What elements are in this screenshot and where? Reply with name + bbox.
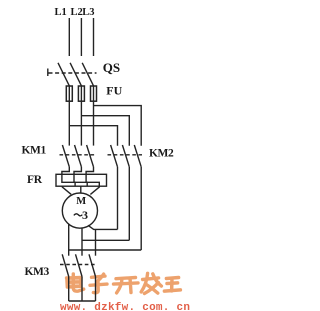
wire delta link U2 to KM2 pole 3 (69, 249, 142, 251)
svg-text:www. dzkfw. com. cn: www. dzkfw. com. cn (60, 302, 190, 311)
wire KM1 pole 1 to FR element (62, 167, 75, 186)
fuse FU pole 2 body (78, 86, 84, 101)
switch QS blade pole 3 (82, 63, 93, 86)
contactor KM1 blade pole 3 (87, 145, 94, 167)
wire KM3 pole 3 drop (95, 229, 97, 255)
wire L1 supply (68, 18, 70, 56)
star point bar (69, 300, 96, 302)
wire pole 1 fuse to KM1 (68, 86, 70, 146)
svg-text:QS: QS (103, 60, 120, 75)
wire motor lead U2 (68, 224, 70, 255)
contactor KM3 linkage dashed (60, 264, 97, 266)
watermark char 电 (67, 278, 82, 288)
contactor KM1 blade pole 1 (62, 145, 69, 167)
wire pole 3 fuse to KM1 (93, 86, 95, 146)
svg-text:FU: FU (106, 83, 122, 97)
thermal relay FR frame (56, 174, 107, 186)
fuse FU pole 1 body (66, 86, 72, 101)
watermark char 王 (164, 278, 180, 292)
motor label ~3 (74, 214, 83, 216)
wire FR to motor terminal W1 (90, 186, 99, 194)
contactor KM1 linkage dashed (60, 154, 95, 156)
wire L3 supply (93, 18, 95, 56)
switch QS blade pole 1 (58, 63, 69, 86)
contactor KM2 blade pole 3 (134, 145, 141, 167)
wire branch L2 to KM2 pole 2 (81, 116, 129, 146)
contactor KM3 blade pole 3 (89, 254, 96, 276)
fuse FU pole 3 body (91, 86, 97, 101)
switch QS blade pole 2 (70, 63, 81, 86)
contactor KM2 blade pole 2 (122, 145, 129, 167)
motor M circle (62, 193, 97, 228)
contactor KM3 blade pole 2 (76, 254, 83, 276)
wire KM1 pole 2 to FR element (74, 167, 87, 186)
svg-text:KM2: KM2 (149, 147, 174, 159)
watermark char 发 (141, 273, 161, 293)
wire KM3 pole 2 to star point (81, 277, 83, 302)
wire FR to motor terminal U1 (62, 186, 71, 194)
svg-text:L2: L2 (71, 7, 83, 18)
watermark char 子 (90, 274, 107, 293)
wire pole 2 fuse to KM1 (80, 86, 82, 146)
contactor KM2 linkage dashed (108, 154, 143, 156)
svg-text:KM3: KM3 (25, 266, 50, 278)
svg-text:FR: FR (27, 174, 43, 186)
wire FR to motor terminal V1 (80, 186, 82, 193)
wire KM3 pole 1 to star point (68, 277, 70, 302)
svg-text:KM1: KM1 (22, 144, 47, 156)
wire motor lead W2 stub (88, 225, 118, 229)
wire KM2 pole 2 bottom (128, 167, 130, 241)
switch QS linkage dashed (49, 72, 97, 74)
wire KM3 pole 3 to star point (95, 277, 97, 302)
watermark char 开 (114, 278, 139, 293)
svg-text:L3: L3 (82, 7, 94, 18)
svg-text:L1: L1 (55, 7, 67, 18)
wire KM2 pole 3 bottom (140, 167, 142, 250)
contactor KM2 blade pole 1 (111, 145, 118, 167)
wire motor lead V2 (81, 228, 83, 255)
wire delta link V2 to KM2 pole 2 (82, 239, 129, 241)
wire KM2 pole 1 bottom (117, 167, 119, 230)
svg-text:3: 3 (82, 208, 88, 222)
contactor KM1 blade pole 2 (75, 145, 82, 167)
switch QS handle tick (47, 69, 49, 77)
wire L2 supply (80, 18, 82, 56)
wire KM1 pole 3 to FR element (86, 167, 99, 186)
wire branch L1 to KM2 pole 1 (69, 126, 117, 146)
svg-text:M: M (76, 196, 86, 207)
wire branch L3 to KM2 pole 3 (94, 106, 142, 146)
contactor KM3 blade pole 1 (62, 254, 68, 276)
